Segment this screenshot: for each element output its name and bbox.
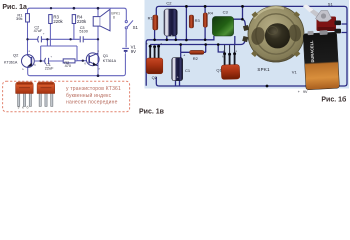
svg-text:б: б (34, 63, 36, 67)
svg-text:V1: V1 (292, 70, 298, 75)
svg-text:Q1: Q1 (103, 53, 109, 58)
svg-text:S1: S1 (133, 25, 139, 30)
svg-text:470: 470 (65, 64, 71, 68)
svg-text:Q2: Q2 (152, 75, 158, 80)
svg-text:39k: 39k (16, 16, 22, 21)
svg-text:22uF: 22uF (45, 67, 54, 71)
svg-text:9V: 9V (303, 90, 308, 94)
svg-text:Рис. 1в: Рис. 1в (139, 108, 165, 115)
svg-text:8: 8 (113, 16, 115, 20)
svg-text:+: + (177, 76, 179, 80)
svg-text:Q1: Q1 (216, 67, 222, 72)
svg-text:буквенный индекс: буквенный индекс (66, 92, 112, 99)
svg-text:Q2: Q2 (13, 52, 19, 57)
svg-text:9V: 9V (131, 49, 136, 54)
svg-text:э к б: э к б (18, 105, 29, 109)
svg-text:R4: R4 (208, 10, 214, 15)
svg-text:C3: C3 (223, 10, 229, 15)
svg-text:+: + (171, 34, 173, 38)
svg-text:нанесен посередине: нанесен посередине (66, 100, 118, 106)
svg-text:KT361A: KT361A (4, 61, 18, 65)
svg-text:+: + (298, 90, 300, 94)
svg-text:у транзисторов КТ361: у транзисторов КТ361 (66, 86, 121, 92)
svg-text:Рис. 1а: Рис. 1а (2, 4, 27, 11)
svg-text:SPK1: SPK1 (257, 67, 270, 72)
svg-text:Рис. 1б: Рис. 1б (321, 96, 347, 104)
svg-text:R1: R1 (148, 15, 154, 20)
svg-text:C2: C2 (166, 0, 172, 5)
svg-text:б: б (222, 55, 224, 59)
svg-text:S1: S1 (328, 2, 334, 7)
svg-text:47uF: 47uF (34, 29, 43, 33)
svg-text:+: + (50, 54, 52, 58)
svg-text:220k: 220k (77, 19, 87, 24)
svg-text:5100: 5100 (79, 29, 87, 33)
svg-text:R3: R3 (195, 18, 201, 23)
svg-text:R2: R2 (193, 56, 199, 61)
svg-text:б: б (84, 62, 86, 66)
svg-text:220k: 220k (53, 19, 63, 24)
svg-text:KT361A: KT361A (103, 59, 117, 63)
svg-text:+: + (43, 32, 45, 36)
svg-text:C1: C1 (185, 68, 191, 73)
